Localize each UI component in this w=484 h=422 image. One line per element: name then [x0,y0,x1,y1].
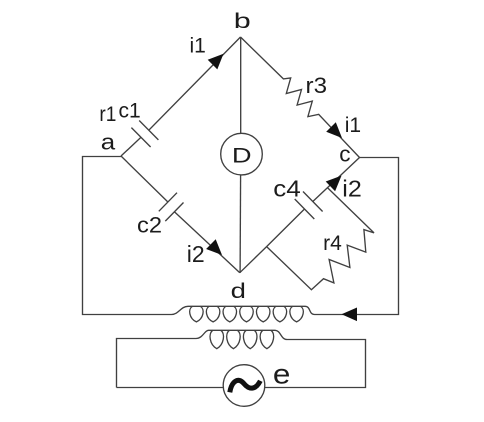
svg-text:c1: c1 [119,99,141,122]
svg-text:c2: c2 [137,213,162,238]
svg-text:r3: r3 [306,73,328,98]
svg-text:i1: i1 [190,35,206,58]
svg-text:r1: r1 [99,103,116,126]
svg-text:e: e [273,359,291,390]
svg-text:d: d [231,280,246,303]
svg-text:i2: i2 [342,176,362,202]
svg-text:c4: c4 [273,176,301,202]
svg-text:D: D [232,144,252,168]
svg-text:r4: r4 [323,232,342,255]
svg-text:c: c [339,141,350,166]
svg-text:i1: i1 [345,114,361,137]
svg-text:a: a [101,130,116,155]
svg-text:b: b [234,10,251,33]
svg-text:i2: i2 [187,241,205,267]
